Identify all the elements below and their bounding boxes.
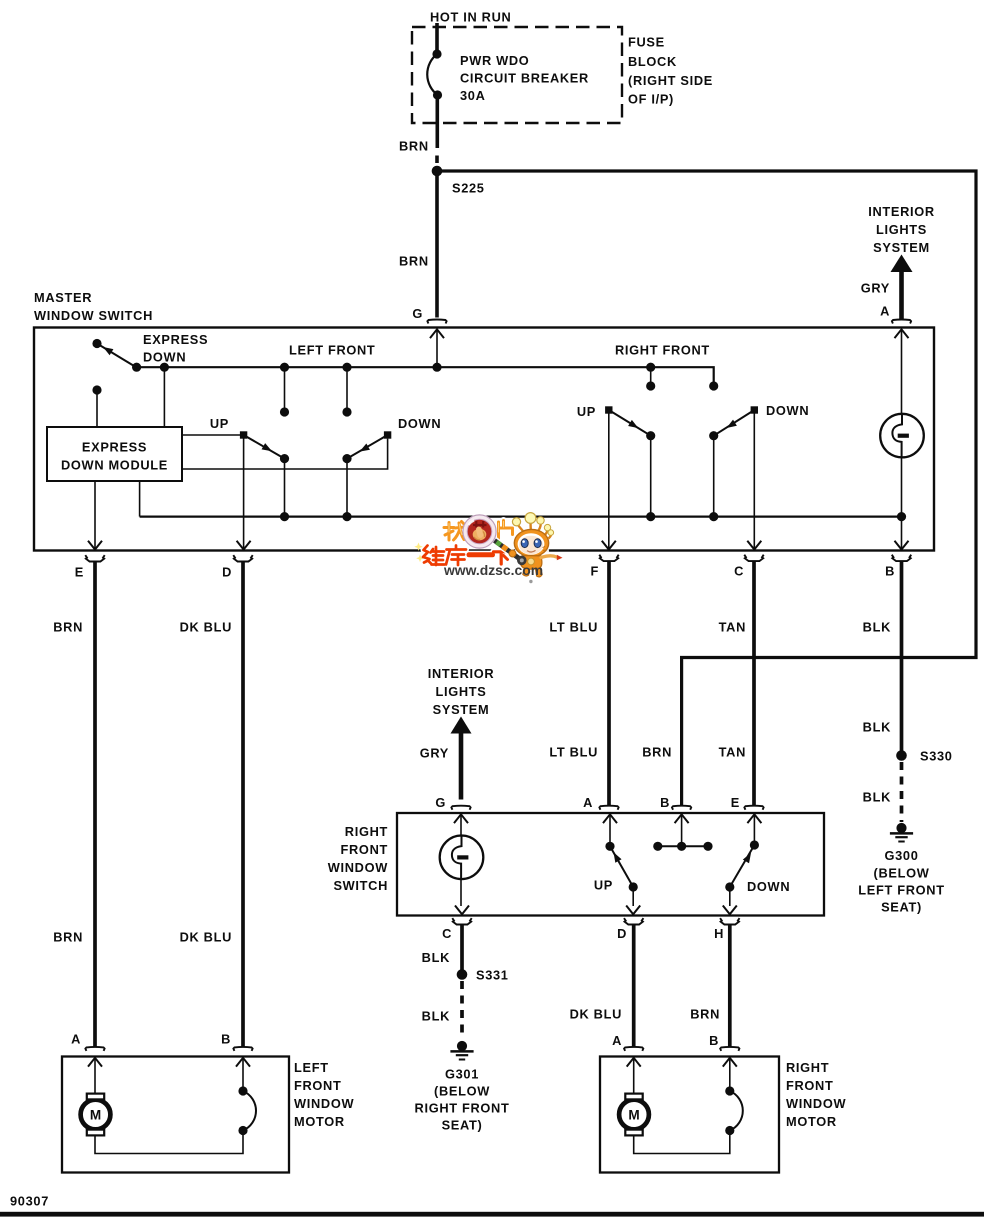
svg-text:DOWN MODULE: DOWN MODULE: [61, 458, 168, 473]
svg-text:WINDOW: WINDOW: [294, 1096, 354, 1111]
svg-text:G300: G300: [884, 848, 918, 863]
svg-text:SEAT): SEAT): [881, 900, 922, 915]
svg-text:FRONT: FRONT: [786, 1078, 833, 1093]
svg-text:BRN: BRN: [399, 139, 429, 154]
svg-text:A: A: [612, 1033, 622, 1048]
svg-text:INTERIOR: INTERIOR: [428, 666, 495, 681]
svg-text:GRY: GRY: [420, 746, 449, 761]
svg-text:C: C: [734, 564, 744, 579]
svg-text:(BELOW: (BELOW: [434, 1084, 490, 1099]
svg-text:30A: 30A: [460, 88, 486, 103]
svg-text:DK BLU: DK BLU: [180, 930, 232, 945]
svg-text:A: A: [583, 795, 593, 810]
svg-text:EXPRESS: EXPRESS: [143, 332, 208, 347]
svg-text:B: B: [885, 564, 895, 579]
svg-text:WINDOW: WINDOW: [786, 1096, 846, 1111]
svg-text:D: D: [222, 565, 232, 580]
svg-text:EXPRESS: EXPRESS: [82, 440, 147, 455]
svg-text:DOWN: DOWN: [747, 879, 790, 894]
svg-text:INTERIOR: INTERIOR: [868, 204, 935, 219]
svg-text:MOTOR: MOTOR: [786, 1114, 837, 1129]
svg-text:DOWN: DOWN: [766, 403, 809, 418]
svg-text:BLOCK: BLOCK: [628, 54, 677, 69]
svg-text:MASTER: MASTER: [34, 290, 92, 305]
svg-text:FRONT: FRONT: [294, 1078, 341, 1093]
svg-text:PWR WDO: PWR WDO: [460, 53, 529, 68]
svg-text:LIGHTS: LIGHTS: [436, 684, 487, 699]
svg-text:S331: S331: [476, 968, 509, 983]
svg-text:BLK: BLK: [863, 790, 891, 805]
svg-text:LT BLU: LT BLU: [549, 745, 598, 760]
svg-text:G: G: [412, 306, 423, 321]
svg-text:RIGHT FRONT: RIGHT FRONT: [415, 1101, 510, 1116]
svg-text:G: G: [435, 795, 446, 810]
svg-text:E: E: [731, 795, 740, 810]
svg-text:DOWN: DOWN: [143, 350, 186, 365]
svg-text:TAN: TAN: [719, 745, 746, 760]
svg-text:E: E: [75, 565, 84, 580]
svg-text:DK BLU: DK BLU: [180, 620, 232, 635]
svg-text:G301: G301: [445, 1067, 479, 1082]
svg-text:DOWN: DOWN: [398, 416, 441, 431]
svg-text:D: D: [617, 926, 627, 941]
svg-text:A: A: [71, 1032, 81, 1047]
svg-text:UP: UP: [577, 404, 596, 419]
svg-text:H: H: [714, 926, 724, 941]
svg-text:B: B: [660, 795, 670, 810]
svg-text:WINDOW SWITCH: WINDOW SWITCH: [34, 308, 153, 323]
svg-text:LEFT FRONT: LEFT FRONT: [858, 883, 944, 898]
svg-text:UP: UP: [594, 878, 613, 893]
svg-text:SYSTEM: SYSTEM: [433, 702, 490, 717]
svg-text:LIGHTS: LIGHTS: [876, 222, 927, 237]
svg-text:BLK: BLK: [863, 620, 891, 635]
svg-text:(RIGHT SIDE: (RIGHT SIDE: [628, 73, 713, 88]
svg-text:RIGHT: RIGHT: [345, 824, 388, 839]
svg-text:GRY: GRY: [861, 281, 890, 296]
svg-text:LT BLU: LT BLU: [549, 620, 598, 635]
svg-text:(BELOW: (BELOW: [874, 866, 930, 881]
svg-text:FUSE: FUSE: [628, 35, 665, 50]
svg-text:LEFT FRONT: LEFT FRONT: [289, 343, 375, 358]
svg-text:SWITCH: SWITCH: [333, 878, 388, 893]
svg-text:B: B: [221, 1032, 231, 1047]
svg-text:A: A: [880, 304, 890, 319]
svg-text:WINDOW: WINDOW: [328, 860, 388, 875]
svg-text:UP: UP: [210, 416, 229, 431]
svg-text:90307: 90307: [10, 1194, 49, 1209]
svg-text:CIRCUIT BREAKER: CIRCUIT BREAKER: [460, 71, 589, 86]
svg-text:MOTOR: MOTOR: [294, 1114, 345, 1129]
svg-text:BLK: BLK: [422, 1009, 450, 1024]
svg-text:OF I/P): OF I/P): [628, 92, 674, 107]
svg-text:LEFT: LEFT: [294, 1060, 329, 1075]
svg-text:BRN: BRN: [53, 930, 83, 945]
svg-text:FRONT: FRONT: [341, 842, 388, 857]
svg-text:BRN: BRN: [53, 620, 83, 635]
svg-text:DK BLU: DK BLU: [570, 1007, 622, 1022]
svg-text:BRN: BRN: [690, 1007, 720, 1022]
svg-text:B: B: [709, 1033, 719, 1048]
svg-text:TAN: TAN: [719, 620, 746, 635]
svg-text:BLK: BLK: [863, 720, 891, 735]
svg-text:SYSTEM: SYSTEM: [873, 240, 930, 255]
svg-text:BLK: BLK: [422, 950, 450, 965]
svg-text:C: C: [442, 926, 452, 941]
svg-text:SEAT): SEAT): [442, 1118, 483, 1133]
svg-text:S330: S330: [920, 749, 953, 764]
svg-text:RIGHT FRONT: RIGHT FRONT: [615, 343, 710, 358]
svg-text:HOT IN RUN: HOT IN RUN: [430, 10, 511, 25]
svg-text:BRN: BRN: [642, 745, 672, 760]
svg-text:F: F: [591, 564, 600, 579]
svg-text:S225: S225: [452, 181, 485, 196]
svg-text:BRN: BRN: [399, 254, 429, 269]
svg-text:RIGHT: RIGHT: [786, 1060, 829, 1075]
svg-text:www.dzsc.com: www.dzsc.com: [443, 562, 543, 578]
